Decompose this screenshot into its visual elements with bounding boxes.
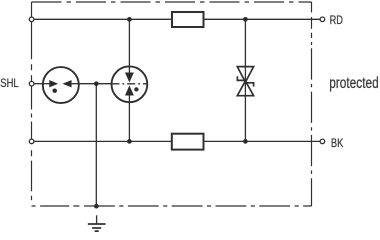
ground symbol (88, 215, 106, 231)
wire bottom rail left segment (34, 140, 172, 142)
enclosure border bottom main (dash-dot, equipotential line) (84, 205, 311, 207)
gas discharge tube F1 (spark gap, left) (43, 67, 79, 103)
terminal RD (320, 17, 325, 22)
svg-text:BK: BK (331, 136, 343, 150)
enclosure border top (dash-dot) (32, 1, 312, 3)
svg-text:protected: protected (329, 75, 379, 92)
junction top rail / middle tube (127, 17, 132, 22)
wire middle tube bottom lead (128, 102, 130, 141)
enclosure border right upper (dash-dot) (311, 2, 313, 45)
TVS suppressor diode D1 (bidirectional) (237, 67, 253, 96)
junction top rail / TVS branch (243, 17, 248, 22)
svg-text:RD: RD (330, 13, 344, 27)
wire top rail left segment (34, 18, 172, 20)
wire TVS diode branch vertical (244, 19, 246, 141)
terminal bottom left (29, 139, 34, 144)
gas discharge tube F2 (three-electrode, middle) (111, 66, 147, 102)
terminal BK (320, 139, 325, 144)
enclosure border left segment 4 (dash-dot) (31, 144, 33, 206)
wire bottom rail right segment (204, 140, 321, 142)
junction SHL rail / earthing branch (94, 81, 99, 86)
resistor R2 (bottom decoupling resistor) (172, 134, 204, 150)
wire middle tube top lead (128, 19, 130, 66)
terminal top left (29, 17, 34, 22)
junction bottom rail / TVS branch (243, 139, 248, 144)
terminal SHL (29, 81, 34, 86)
enclosure border left segment 1 (dash-dot) (31, 2, 33, 17)
wire top rail right segment (204, 18, 321, 20)
svg-text:SHL: SHL (0, 76, 19, 90)
enclosure border left segment 3 (dash-dot) (31, 86, 33, 139)
enclosure border right lower (dash-dot) (311, 48, 313, 206)
wire shield earthing branch vertical (95, 84, 97, 207)
junction earthing branch / equipotential line (94, 204, 99, 209)
junction bottom rail / middle tube (127, 139, 132, 144)
resistor R1 (top decoupling resistor) (172, 12, 204, 27)
wire SHL rail into left gas discharge tube (34, 83, 43, 85)
enclosure border bottom intro (dash-dot, equipotential line) (32, 205, 85, 207)
wire SHL rail between tubes (79, 83, 112, 85)
enclosure border left segment 2 (dash-dot) (31, 22, 33, 82)
